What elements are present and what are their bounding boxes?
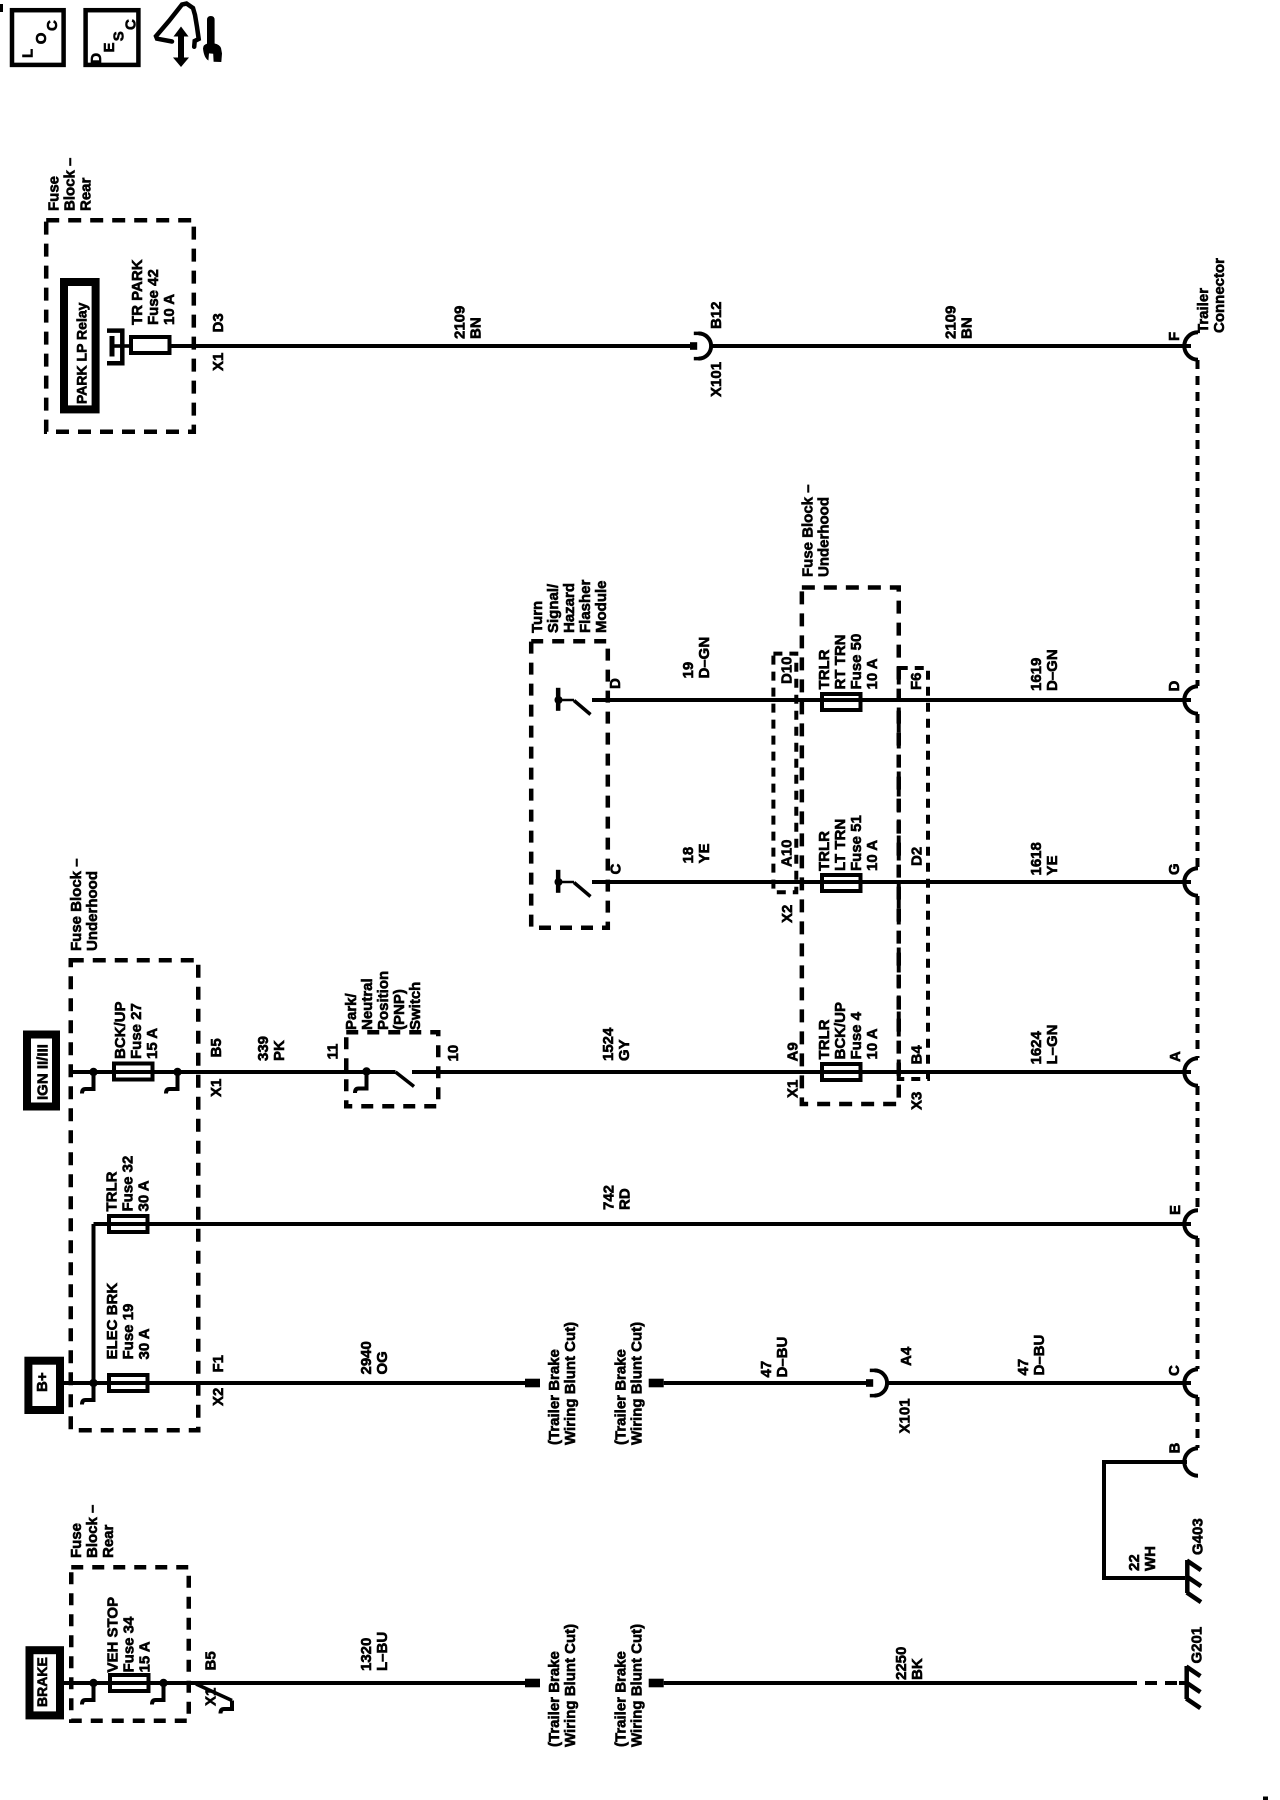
PNP switch junction [362, 1067, 370, 1075]
pin label D10 [779, 656, 796, 684]
pin label D2 [909, 847, 926, 866]
svg-text:B4: B4 [909, 1045, 926, 1065]
svg-text:D2: D2 [909, 847, 926, 866]
svg-text:BN: BN [959, 317, 976, 339]
svg-text:BK: BK [909, 1658, 926, 1680]
svg-text:C: C [1166, 1365, 1183, 1376]
svg-text:Trailer: Trailer [1195, 288, 1212, 333]
label X101 (row C) [897, 1398, 914, 1433]
blunt cut terminal 3 [525, 1679, 540, 1688]
wire 22 WH [1104, 1462, 1187, 1578]
svg-text:X101: X101 [708, 362, 725, 397]
label 2940 OG [358, 1341, 391, 1374]
wire 742 RD [94, 1222, 1192, 1226]
trailer connector pin G [1166, 863, 1198, 895]
svg-text:Position: Position [375, 971, 392, 1030]
svg-text:TRLR: TRLR [816, 831, 833, 871]
svg-text:Fuse: Fuse [68, 1523, 85, 1558]
label TR PARK Fuse 42 10 A [129, 259, 178, 325]
svg-text:X1: X1 [785, 1080, 802, 1098]
svg-text:Block –: Block – [84, 1505, 101, 1558]
svg-text:C: C [44, 20, 61, 31]
fuse ELEC BRK Fuse 19 30 A [109, 1375, 148, 1391]
svg-text:742: 742 [601, 1185, 618, 1210]
fuse VEH STOP Fuse 34 15 A [110, 1675, 149, 1691]
pin label F6 [908, 672, 925, 690]
label 2109 BN (1) [452, 306, 485, 339]
svg-text:18: 18 [680, 847, 697, 864]
fuse TRLR BCK/UP Fuse 4 10 A [822, 1064, 861, 1080]
svg-text:Fuse 4: Fuse 4 [848, 1011, 865, 1059]
svg-text:F1: F1 [210, 1355, 227, 1373]
label trailer brake blunt cut 2 [613, 1322, 646, 1445]
wire 1524 GY [412, 1070, 1191, 1074]
blunt cut terminal 1 [525, 1379, 540, 1388]
svg-text:D: D [88, 53, 105, 64]
svg-text:(Trailer Brake: (Trailer Brake [546, 1651, 563, 1747]
junction node (bus feed right) [173, 1068, 181, 1076]
label Fuse Block - Underhood (right) [800, 484, 833, 577]
relay contact [107, 331, 131, 364]
label VEH STOP Fuse 34 15 A [105, 1597, 154, 1673]
svg-text:Switch: Switch [407, 982, 424, 1030]
page number fragment [1263, 1797, 1268, 1800]
svg-text:X1: X1 [208, 1079, 225, 1097]
label A4 [898, 1346, 915, 1366]
svg-text:15 A: 15 A [137, 1641, 154, 1672]
svg-text:TRLR: TRLR [104, 1171, 121, 1211]
svg-text:B12: B12 [708, 301, 725, 329]
svg-text:G201: G201 [1189, 1627, 1206, 1664]
svg-text:BN: BN [468, 317, 485, 339]
svg-text:ELEC BRK: ELEC BRK [104, 1283, 121, 1360]
PNP switch hook [355, 1074, 369, 1094]
svg-text:C: C [608, 864, 625, 875]
svg-text:X2: X2 [779, 905, 796, 923]
junction node brake 1 [89, 1679, 97, 1687]
svg-text:Signal/: Signal/ [545, 583, 562, 633]
svg-text:Rear: Rear [78, 177, 95, 211]
PNP switch blade [396, 1072, 415, 1087]
page corner tick [0, 4, 3, 12]
svg-text:L: L [20, 49, 37, 58]
wire 2109 BN segment 2 [711, 344, 1192, 348]
svg-text:Fuse 34: Fuse 34 [121, 1616, 138, 1673]
fuse block - rear dashed box [46, 220, 194, 432]
pin label 10 [445, 1045, 462, 1062]
svg-text:LT TRN: LT TRN [832, 819, 849, 871]
svg-text:TR PARK: TR PARK [129, 259, 146, 325]
power feed BRAKE [30, 1650, 61, 1715]
svg-text:OG: OG [374, 1351, 391, 1374]
svg-text:D: D [1166, 681, 1183, 692]
fuse block underhood left dashed box [71, 960, 199, 1430]
bus continuation hook 2 [166, 1074, 180, 1094]
svg-text:A9: A9 [785, 1042, 802, 1061]
junction node (bus feed left) [89, 1068, 97, 1076]
svg-text:A10: A10 [779, 839, 796, 867]
svg-text:O: O [33, 32, 50, 44]
svg-text:D–BU: D–BU [774, 1337, 791, 1378]
pin label D (module) [607, 678, 624, 689]
svg-text:Wiring Blunt Cut): Wiring Blunt Cut) [562, 1624, 579, 1747]
label 1619 D-GN [1028, 649, 1061, 691]
label 1320 L-BU [358, 1632, 391, 1671]
svg-text:Neutral: Neutral [359, 978, 376, 1030]
trailer connector pin E [1167, 1205, 1198, 1238]
svg-text:10 A: 10 A [161, 294, 178, 325]
ground G403 [1187, 1560, 1201, 1602]
svg-text:E: E [1167, 1205, 1184, 1215]
connector X2 dashed box [773, 654, 796, 893]
pin label F1 [210, 1355, 227, 1373]
pin label X2 (elec brk) [210, 1388, 227, 1406]
trailer connector pin D [1166, 681, 1198, 714]
label TRLR BCK/UP Fuse 4 10 A [816, 1002, 881, 1060]
fuse BCK/UP Fuse 27 15 A [114, 1064, 153, 1080]
svg-text:X1: X1 [210, 353, 227, 371]
trailer connector dashed body [1196, 360, 1200, 1448]
DESC legend box [86, 10, 140, 65]
label trailer brake blunt cut 1 [546, 1322, 579, 1445]
svg-text:(Trailer Brake: (Trailer Brake [613, 1651, 630, 1747]
svg-text:47: 47 [758, 1361, 775, 1378]
bus wire B+ to TRLR fuse [92, 1224, 96, 1383]
svg-text:Fuse Block –: Fuse Block – [800, 484, 817, 577]
svg-text:1618: 1618 [1028, 842, 1045, 875]
svg-text:Turn: Turn [529, 601, 546, 633]
svg-text:30 A: 30 A [136, 1328, 153, 1359]
wire 1320 L-BU segment 1 [60, 1681, 525, 1685]
svg-text:Fuse 51: Fuse 51 [848, 815, 865, 871]
connector X101 pin A4 [866, 1370, 887, 1395]
svg-text:TRLR: TRLR [816, 649, 833, 689]
label 339 PK [255, 1036, 288, 1061]
svg-text:19: 19 [680, 662, 697, 679]
svg-text:Flasher: Flasher [577, 579, 594, 633]
svg-text:Rear: Rear [100, 1524, 117, 1558]
trailer connector pin B [1167, 1443, 1199, 1476]
label 47 D-BU (2) [1015, 1335, 1048, 1376]
svg-text:A: A [1167, 1051, 1184, 1062]
label X2 [779, 905, 796, 923]
label 2250 BK [893, 1647, 926, 1680]
svg-text:S: S [111, 31, 128, 41]
connector X101 pin B12 [690, 333, 711, 358]
svg-text:A4: A4 [898, 1346, 915, 1366]
svg-text:PK: PK [271, 1040, 288, 1061]
label Park/Neutral Position (PNP) Switch [343, 971, 424, 1030]
label 2109 BN (2) [943, 306, 976, 339]
svg-text:Fuse 27: Fuse 27 [128, 1003, 145, 1059]
pin label X1 (fuse block underhood) [785, 1080, 802, 1098]
svg-text:Wiring Blunt Cut): Wiring Blunt Cut) [562, 1322, 579, 1445]
label X3 [909, 1092, 926, 1110]
label TRLR Fuse 32 30 A [104, 1156, 153, 1212]
svg-text:Park/: Park/ [343, 992, 360, 1030]
pin label X1 (row A) [208, 1079, 225, 1097]
svg-text:Wiring Blunt Cut): Wiring Blunt Cut) [629, 1322, 646, 1445]
fuse TRLR Fuse 32 30 A [109, 1216, 148, 1232]
svg-text:C: C [123, 19, 140, 30]
svg-text:RD: RD [617, 1188, 634, 1210]
svg-text:TRLR: TRLR [816, 1019, 833, 1059]
blunt cut terminal 4 [649, 1679, 664, 1688]
svg-text:WH: WH [1142, 1546, 1159, 1571]
label G201 [1189, 1627, 1206, 1664]
ground G201 tick [1179, 1681, 1187, 1685]
svg-text:(PNP): (PNP) [391, 989, 408, 1030]
svg-text:Wiring Blunt Cut): Wiring Blunt Cut) [629, 1624, 646, 1747]
svg-text:2250: 2250 [893, 1647, 910, 1680]
svg-text:B: B [1167, 1443, 1184, 1454]
svg-text:D–GN: D–GN [1044, 649, 1061, 691]
label Fuse Block - Underhood (left) [68, 858, 101, 951]
ground G201 [1186, 1666, 1200, 1708]
label 19 D-GN [680, 637, 713, 679]
svg-text:D10: D10 [779, 656, 796, 684]
brake hook 2 [152, 1685, 166, 1705]
svg-text:D–GN: D–GN [696, 637, 713, 679]
label trailer brake blunt cut 4 [613, 1624, 646, 1747]
wire 19 D-GN [592, 698, 1191, 702]
navigation icon up-down arrow [173, 27, 189, 68]
label Turn Signal/Hazard Flasher Module [529, 579, 610, 633]
svg-text:Block –: Block – [62, 158, 79, 211]
label trailer brake blunt cut 3 [546, 1624, 579, 1747]
label 1624 L-GN [1028, 1024, 1061, 1064]
fuse TRLR LT TRN Fuse 51 10 A [822, 875, 861, 891]
label Trailer Connector [1195, 258, 1228, 333]
label 47 D-BU (1) [758, 1337, 791, 1378]
svg-text:Module: Module [593, 581, 610, 634]
wire 339 PK segment 1 [69, 1070, 396, 1074]
bus continuation hook 1 [82, 1074, 96, 1094]
fuse block - rear bottom dashed box [71, 1567, 189, 1721]
svg-text:D3: D3 [210, 313, 227, 332]
label G403 [1190, 1518, 1207, 1555]
svg-text:E: E [101, 42, 118, 52]
label Fuse Block - Rear (top) [46, 158, 95, 211]
PNP switch dashed box [346, 1032, 438, 1106]
svg-text:B5: B5 [208, 1038, 225, 1057]
svg-text:F6: F6 [908, 672, 925, 690]
svg-text:Fuse 50: Fuse 50 [848, 634, 865, 690]
svg-text:2940: 2940 [358, 1341, 375, 1374]
svg-text:Connector: Connector [1211, 258, 1228, 333]
svg-text:10 A: 10 A [864, 1028, 881, 1059]
svg-text:IGN II/III: IGN II/III [35, 1044, 52, 1100]
label 1524 GY [600, 1027, 633, 1061]
switch contact D [555, 688, 591, 715]
pin label X1 (row 1) [210, 353, 227, 371]
svg-text:BRAKE: BRAKE [34, 1657, 50, 1707]
svg-text:G: G [1166, 863, 1183, 875]
wire 2940 OG segment 1 [60, 1381, 525, 1385]
pin label A10 [779, 839, 796, 867]
svg-text:Fuse Block –: Fuse Block – [68, 858, 85, 951]
svg-text:PARK LP Relay: PARK LP Relay [74, 302, 90, 404]
svg-text:30 A: 30 A [136, 1180, 153, 1211]
label ELEC BRK Fuse 19 30 A [104, 1283, 153, 1360]
fuse block underhood right dashed box [802, 588, 899, 1105]
wire 2250 BK [664, 1681, 1125, 1685]
B+ bus hook [82, 1385, 96, 1405]
svg-text:Underhood: Underhood [84, 871, 101, 951]
svg-text:22: 22 [1126, 1554, 1143, 1571]
pin label C (module) [608, 864, 625, 875]
navigation icon arrow outline [156, 4, 199, 47]
svg-text:10: 10 [445, 1045, 462, 1062]
label 742 RD [601, 1185, 634, 1210]
LOC legend box [12, 10, 64, 65]
svg-text:Hazard: Hazard [561, 583, 578, 633]
pin label 11 [325, 1044, 342, 1060]
svg-text:YE: YE [696, 843, 713, 863]
power feed IGN II/III [27, 1035, 56, 1107]
svg-text:Fuse: Fuse [46, 176, 63, 211]
svg-text:339: 339 [255, 1036, 272, 1061]
connector X3 dashed box [899, 668, 928, 1079]
svg-text:B+: B+ [34, 1372, 51, 1392]
svg-text:BCK/UP: BCK/UP [832, 1002, 849, 1060]
label TRLR RT TRN Fuse 50 10 A [816, 634, 881, 690]
blunt cut terminal 2 [649, 1379, 664, 1388]
label 22 WH [1126, 1546, 1159, 1571]
fuse TRLR RT TRN Fuse 50 10 A [822, 694, 861, 710]
svg-text:Fuse 42: Fuse 42 [145, 269, 162, 325]
svg-text:D–BU: D–BU [1031, 1335, 1048, 1376]
svg-text:(Trailer Brake: (Trailer Brake [546, 1349, 563, 1445]
pin label B5 (brake) [203, 1651, 220, 1670]
svg-text:GY: GY [616, 1039, 633, 1061]
turn signal flasher module dashed box [531, 641, 608, 928]
svg-text:G403: G403 [1190, 1518, 1207, 1555]
label Fuse Block - Rear (bottom) [68, 1505, 117, 1558]
svg-text:Underhood: Underhood [816, 497, 833, 577]
svg-text:1320: 1320 [358, 1638, 375, 1671]
pin label B4 [909, 1045, 926, 1065]
power feed B+ [28, 1361, 60, 1410]
fuse TR PARK Fuse 42 10 A [131, 337, 170, 353]
junction node brake 2 [159, 1679, 167, 1687]
pin label D3 [210, 313, 227, 332]
pin label X1 (brake) [203, 1688, 220, 1706]
trailer connector pin A [1167, 1051, 1198, 1086]
svg-text:47: 47 [1015, 1359, 1032, 1376]
svg-text:L–BU: L–BU [374, 1632, 391, 1671]
svg-text:RT TRN: RT TRN [832, 635, 849, 690]
navigation icon wrench [207, 16, 215, 44]
svg-text:(Trailer Brake: (Trailer Brake [613, 1349, 630, 1445]
wire 47 D-BU segment 1 [664, 1381, 866, 1385]
label BCK/UP Fuse 27 15 A [112, 1001, 161, 1059]
svg-text:10 A: 10 A [864, 840, 881, 871]
svg-text:2109: 2109 [452, 306, 469, 339]
trailer connector pin F [1166, 332, 1198, 360]
svg-text:11: 11 [325, 1044, 342, 1060]
wire to ground G201 dashed [1125, 1681, 1181, 1685]
wire 47 D-BU segment 2 [887, 1381, 1192, 1385]
svg-text:15 A: 15 A [144, 1028, 161, 1059]
trailer connector pin C [1166, 1365, 1198, 1397]
label TRLR LT TRN Fuse 51 10 A [816, 815, 881, 871]
svg-text:X2: X2 [210, 1388, 227, 1406]
label X101 (row 1) [708, 362, 725, 397]
label 1618 YE [1028, 842, 1061, 875]
pin label B5 (row A) [208, 1038, 225, 1057]
svg-text:1524: 1524 [600, 1027, 617, 1061]
svg-text:10 A: 10 A [864, 658, 881, 689]
svg-text:YE: YE [1044, 855, 1061, 875]
switch contact C [555, 870, 591, 897]
svg-text:F: F [1166, 332, 1183, 341]
brake hook 1 [82, 1685, 96, 1705]
splice branch [196, 1684, 234, 1714]
svg-text:Fuse 19: Fuse 19 [120, 1304, 137, 1360]
svg-text:1619: 1619 [1028, 658, 1045, 691]
svg-text:X3: X3 [909, 1092, 926, 1110]
wire 2109 BN segment 1 [170, 344, 690, 348]
svg-text:2109: 2109 [943, 306, 960, 339]
svg-text:Fuse 32: Fuse 32 [120, 1156, 137, 1212]
svg-text:L–GN: L–GN [1044, 1024, 1061, 1064]
svg-text:VEH STOP: VEH STOP [105, 1597, 122, 1673]
label B12 [708, 301, 725, 329]
svg-text:D: D [607, 678, 624, 689]
svg-text:B5: B5 [203, 1651, 220, 1670]
label 18 YE [680, 843, 713, 863]
svg-text:BCK/UP: BCK/UP [112, 1001, 129, 1059]
svg-text:X101: X101 [897, 1398, 914, 1433]
svg-text:1624: 1624 [1028, 1030, 1045, 1064]
junction node B+ bus [89, 1379, 97, 1387]
pin label A9 [785, 1042, 802, 1061]
wire 18 YE [592, 880, 1191, 884]
relay PARK LP Relay [64, 282, 96, 409]
